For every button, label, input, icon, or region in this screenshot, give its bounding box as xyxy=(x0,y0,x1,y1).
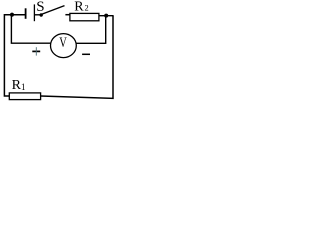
battery cell: short plate xyxy=(25,8,27,18)
wire switch contact to R2 xyxy=(65,14,70,16)
battery cell: long plate xyxy=(33,4,35,21)
resistor R1 box xyxy=(9,93,40,100)
wire voltmeter branch right xyxy=(76,16,106,44)
wire voltmeter branch left xyxy=(11,15,51,44)
polarity minus sign xyxy=(82,53,90,55)
svg-text:V: V xyxy=(59,34,67,50)
svg-text:S: S xyxy=(36,0,44,15)
voltmeter U1 ellipse xyxy=(51,34,77,58)
switch blade (open) xyxy=(41,6,64,15)
junction node right dot xyxy=(104,14,108,18)
switch S pivot dot xyxy=(40,13,43,16)
polarity plus sign xyxy=(32,47,40,55)
wire R2 to top-right corner xyxy=(99,15,114,17)
junction node left dot xyxy=(10,13,14,17)
wire left side: top-left corner down to R1 xyxy=(4,15,25,96)
wire battery to switch xyxy=(35,14,41,16)
resistor R2 box xyxy=(70,13,99,20)
voltmeter label V xyxy=(59,34,67,50)
wire right side and sloped bottom to R1 xyxy=(41,16,113,99)
